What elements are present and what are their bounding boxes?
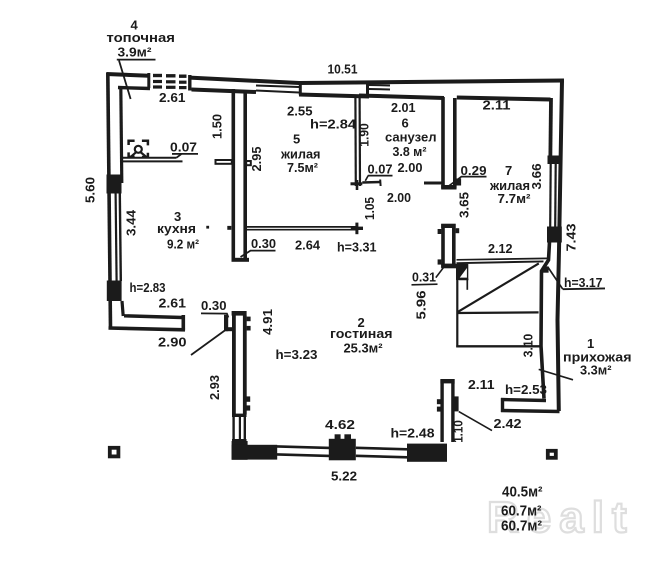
upper cased opening bottom cap bbox=[441, 264, 456, 269]
svg-text:40.5м²: 40.5м² bbox=[502, 485, 543, 501]
hallway door frame right flange bbox=[453, 396, 459, 411]
window: living room left window lines bbox=[232, 417, 234, 440]
svg-text:7.7м²: 7.7м² bbox=[498, 191, 532, 206]
window: bottom wall window 2 bbox=[356, 448, 408, 450]
leader diagonal to living room wall bbox=[191, 331, 225, 355]
bottom-left solid corner block (L-shape) bbox=[232, 441, 248, 460]
bathroom door sill line bbox=[362, 181, 380, 184]
hallway door frame top cap bbox=[440, 379, 454, 383]
svg-text:2.01: 2.01 bbox=[391, 100, 416, 115]
wall: hallway bottom outer line bbox=[501, 411, 560, 412]
svg-text:3.10: 3.10 bbox=[521, 334, 536, 358]
svg-text:2.90: 2.90 bbox=[158, 335, 187, 350]
wall: bathroom top line bbox=[359, 96, 444, 99]
svg-text:0.07: 0.07 bbox=[170, 140, 197, 155]
svg-text:1.90: 1.90 bbox=[357, 123, 372, 147]
column square bottom-right bbox=[548, 451, 556, 458]
svg-text:6: 6 bbox=[402, 116, 409, 131]
svg-text:2.95: 2.95 bbox=[249, 147, 264, 172]
wall: kitchen partition left line bbox=[232, 89, 236, 259]
svg-text:топочная: топочная bbox=[107, 30, 176, 45]
wall: right pier 1 (solid) bbox=[548, 156, 563, 165]
label 0.30 mid underline and leader bbox=[241, 251, 276, 257]
label 0.07 mid underline with tick bbox=[368, 175, 393, 177]
svg-text:7.43: 7.43 bbox=[564, 224, 579, 252]
stair corner black square with white notch bbox=[456, 264, 468, 280]
living room wall right jamb ticks (top pair) bbox=[247, 317, 251, 322]
living room wall right jamb ticks (bottom pair) bbox=[246, 396, 250, 401]
small dot in kitchen bbox=[206, 226, 209, 229]
wall: hallway bottom inner line bbox=[501, 400, 546, 401]
wall: left pier 2 (solid) bbox=[107, 281, 122, 302]
hallway door frame lines bbox=[440, 380, 443, 443]
living room wall left jamb flange bbox=[224, 315, 228, 331]
svg-text:60.7м²: 60.7м² bbox=[501, 504, 542, 520]
svg-text:2.00: 2.00 bbox=[387, 190, 411, 205]
svg-text:0.30: 0.30 bbox=[251, 236, 276, 251]
svg-text:h=2.48: h=2.48 bbox=[391, 426, 435, 441]
leader to hallway label bbox=[539, 369, 573, 379]
stair top double line bbox=[457, 258, 548, 259]
stair mid line bbox=[457, 311, 538, 314]
stair bottom line bbox=[456, 345, 540, 347]
column square bottom-left bbox=[110, 448, 119, 457]
svg-text:h=3.31: h=3.31 bbox=[337, 240, 377, 255]
living room left wall lines bbox=[232, 311, 236, 415]
pier ticks bbox=[335, 434, 341, 439]
svg-text:3.66: 3.66 bbox=[529, 164, 544, 190]
svg-text:4.91: 4.91 bbox=[260, 309, 275, 335]
svg-text:25.3м²: 25.3м² bbox=[344, 341, 384, 356]
svg-text:санузел: санузел bbox=[385, 130, 437, 145]
svg-text:2.55: 2.55 bbox=[287, 104, 313, 119]
wall: right inner line below pier (leans left then back) bbox=[541, 242, 550, 399]
svg-text:0.07: 0.07 bbox=[368, 162, 393, 177]
svg-text:0.31: 0.31 bbox=[412, 270, 436, 285]
wall: kitchen wing bottom outer line bbox=[109, 328, 186, 330]
label 0.29 underline and leader bbox=[461, 176, 487, 178]
svg-text:h=3.23: h=3.23 bbox=[276, 347, 318, 362]
upper cased opening top cap bbox=[441, 224, 456, 228]
svg-text:2.11: 2.11 bbox=[468, 377, 495, 392]
svg-text:10.51: 10.51 bbox=[328, 62, 358, 77]
wall: outer right line bbox=[558, 81, 563, 412]
living room left wall top cap bbox=[232, 311, 247, 316]
bottom wall middle pier bbox=[329, 439, 356, 461]
svg-text:2.12: 2.12 bbox=[488, 241, 513, 256]
label 3.9m2 underline and leader bbox=[117, 59, 156, 61]
svg-text:2.64: 2.64 bbox=[295, 238, 321, 253]
svg-text:3.44: 3.44 bbox=[124, 209, 139, 236]
svg-text:3.9м²: 3.9м² bbox=[118, 45, 153, 60]
corridor door sill right segment bbox=[424, 182, 442, 185]
upper cased opening (to hallway) left/right lines bbox=[441, 224, 445, 268]
room5 bottom dimension double line bbox=[246, 226, 358, 228]
svg-text:h=3.17: h=3.17 bbox=[564, 275, 603, 290]
window: dashes row 3 bbox=[153, 85, 187, 89]
window D in top wall (x369-390) bbox=[369, 84, 390, 87]
label 0.31 underline and leader bbox=[412, 283, 438, 286]
wall: left inner line below pier2 bbox=[122, 301, 123, 316]
wall: top section A bottom line (x191-256) bbox=[192, 90, 257, 93]
window: left wall window lines (y193-281) bbox=[116, 194, 117, 282]
living room wall bar above window bbox=[232, 414, 247, 417]
hallway door frame left ticks bbox=[437, 399, 441, 404]
wall: outer top (slopes slightly down to the right) bbox=[107, 74, 149, 76]
wall: kitchen partition bottom cap bbox=[232, 258, 250, 262]
svg-text:0.29: 0.29 bbox=[461, 163, 487, 178]
jamb square right of shared wall bbox=[457, 179, 462, 186]
svg-text:4.62: 4.62 bbox=[325, 417, 355, 432]
svg-text:гостиная: гостиная bbox=[330, 326, 393, 341]
svg-text:h=2.53: h=2.53 bbox=[505, 382, 547, 397]
bathroom door jamb cross bbox=[351, 182, 363, 185]
svg-text:0.30: 0.30 bbox=[201, 298, 227, 313]
bottom wall right block bbox=[407, 444, 447, 462]
label h=3.17 underline bbox=[563, 287, 605, 290]
wall: room7 top line bbox=[457, 98, 551, 100]
leader to label 2.42 bbox=[459, 412, 492, 431]
window: dashed opening left tick bbox=[147, 73, 150, 88]
svg-text:3.8 м²: 3.8 м² bbox=[393, 144, 428, 159]
svg-text:h=2.83: h=2.83 bbox=[130, 281, 166, 295]
svg-text:7.5м²: 7.5м² bbox=[287, 160, 319, 175]
stair diagonal bbox=[458, 263, 539, 311]
window B in top wall (x256-299) bbox=[256, 86, 299, 88]
wall: kitchen partition right line bbox=[243, 90, 247, 259]
window sill bar bbox=[232, 439, 247, 442]
wall: room7 right line bbox=[548, 98, 553, 162]
window: right wall window lines (y163-227) bbox=[549, 164, 552, 227]
svg-text:5.60: 5.60 bbox=[83, 177, 98, 203]
svg-text:1.50: 1.50 bbox=[210, 114, 225, 139]
svg-text:1.10: 1.10 bbox=[451, 420, 466, 443]
svg-text:5: 5 bbox=[293, 132, 300, 147]
label 0.07 underline with jog bbox=[177, 154, 199, 158]
wall: hallway bottom wall left cap bbox=[501, 398, 504, 412]
wall: kitchen wing bottom right cap bbox=[182, 315, 186, 331]
window: dashes row 2 bbox=[153, 80, 187, 84]
wall: boiler room inner left line bbox=[121, 87, 122, 184]
svg-text:h=2.84: h=2.84 bbox=[310, 117, 357, 132]
svg-text:3.65: 3.65 bbox=[457, 192, 472, 218]
svg-text:3.3м²: 3.3м² bbox=[580, 363, 612, 378]
svg-text:5.96: 5.96 bbox=[414, 291, 429, 320]
wall: kitchen wing bottom inner line bbox=[124, 316, 182, 318]
svg-text:7: 7 bbox=[505, 163, 512, 178]
svg-text:9.2 м²: 9.2 м² bbox=[167, 237, 200, 252]
door hinge square right of partition bbox=[246, 161, 251, 165]
black square on right wall at stair top bbox=[543, 266, 549, 272]
jamb ticks of upper cased opening bbox=[438, 229, 442, 234]
window: bottom wall window 1 bbox=[277, 446, 330, 448]
dimension line left tick bbox=[227, 226, 231, 230]
svg-text:2.42: 2.42 bbox=[494, 416, 522, 431]
wall: boiler room inner top line bbox=[118, 88, 150, 89]
wall: bathroom left line (double) bbox=[354, 97, 357, 187]
sink icon circle bbox=[135, 146, 142, 153]
stair left line bbox=[456, 280, 458, 348]
wall: left pier 1 (solid) bbox=[107, 175, 122, 194]
label 0.30 left underline with tick bbox=[201, 313, 228, 317]
svg-text:2.93: 2.93 bbox=[207, 375, 222, 400]
sink icon corner brackets bbox=[129, 141, 148, 157]
dimension line right cross bbox=[355, 223, 358, 235]
wall: right pier 2 (solid) bbox=[547, 227, 562, 243]
svg-text:5.22: 5.22 bbox=[331, 469, 357, 484]
step mark under black square bbox=[459, 278, 469, 280]
window: dashes row 1 bbox=[153, 74, 187, 78]
shared wall bottom cap bbox=[441, 185, 456, 190]
wall: bathroom/room7 shared wall (cased) bbox=[441, 97, 445, 189]
wall: top section C (x299-369) bottom line with end caps bbox=[299, 95, 369, 97]
svg-text:кухня: кухня bbox=[157, 221, 196, 236]
leader from wall square to h=3.17 underline bbox=[548, 267, 563, 289]
door leaf stub left of partition bbox=[216, 160, 232, 164]
svg-text:60.7м²: 60.7м² bbox=[501, 519, 542, 535]
sink icon legs bbox=[131, 152, 137, 157]
svg-text:2.61: 2.61 bbox=[159, 90, 186, 105]
kitchen counter double line bbox=[121, 157, 177, 159]
svg-text:2.11: 2.11 bbox=[483, 98, 511, 113]
window: dashed opening right tick bbox=[188, 75, 191, 91]
svg-text:2.61: 2.61 bbox=[159, 296, 187, 311]
wall: outer left bbox=[108, 73, 111, 330]
svg-text:2.00: 2.00 bbox=[398, 160, 423, 175]
svg-text:1.05: 1.05 bbox=[362, 197, 377, 220]
